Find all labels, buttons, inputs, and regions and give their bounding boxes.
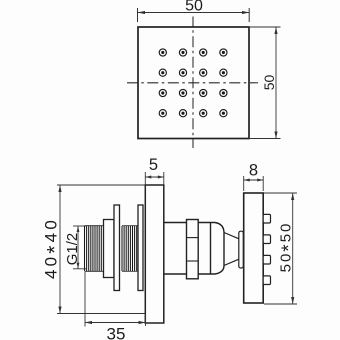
collar ring bbox=[187, 220, 199, 279]
dimension 50 right: bottom arrowhead bbox=[274, 132, 277, 139]
dimension 50 right: dimension line bbox=[275, 27, 277, 139]
dimension 40x40: top arrowhead bbox=[58, 185, 61, 192]
svg-text:G1/2: G1/2 bbox=[64, 233, 81, 266]
dimension 8: left extension line bbox=[243, 176, 245, 191]
dimension 50 top: right arrowhead bbox=[242, 11, 249, 14]
thread section 1 silhouette bbox=[85, 226, 104, 272]
dimension 50 right: extension lines bbox=[250, 27, 281, 139]
dimension G1/2: dimension line bbox=[77, 226, 79, 269]
svg-text:35: 35 bbox=[107, 325, 126, 340]
dimension 35: dimension line bbox=[85, 322, 146, 324]
dimension 50 top: dimension line bbox=[138, 12, 250, 14]
dimension 8: right extension line bbox=[262, 176, 264, 191]
top view square plate 50x50 bbox=[138, 27, 249, 139]
thread section 1 hatching bbox=[85, 226, 102, 272]
nozzle cone bottom line bbox=[224, 259, 239, 265]
dimension 8: right arrowhead bbox=[257, 179, 263, 182]
sprayer body cylinder bbox=[164, 223, 211, 275]
svg-text:40*40: 40*40 bbox=[42, 217, 67, 279]
svg-text:50*50: 50*50 bbox=[278, 222, 301, 273]
nozzle circle r3c2 bbox=[179, 89, 186, 96]
dimension 40x40: dimension line bbox=[59, 185, 61, 314]
nozzle circle r4c4 bbox=[220, 110, 227, 117]
body dome cap bbox=[211, 223, 225, 275]
dimension 8: dimension line bbox=[244, 179, 264, 181]
dimension 35: right extension stub bbox=[145, 314, 147, 327]
nozzle end plate bbox=[239, 231, 244, 268]
dimension 40x40: top extension line bbox=[57, 184, 145, 186]
dimension 50x50: top arrowhead bbox=[291, 193, 294, 200]
nozzle circle r4c3 bbox=[200, 110, 207, 117]
nozzle circle r1c1 bbox=[159, 49, 166, 56]
nozzle circle r1c4 bbox=[220, 49, 227, 56]
dimension 40x40: bottom arrowhead bbox=[58, 307, 61, 314]
dimension 35: left arrowhead bbox=[85, 321, 92, 324]
nozzle circle r3c4 bbox=[220, 89, 227, 96]
nozzle stub 1 bbox=[263, 214, 270, 223]
collar division line upper bbox=[187, 237, 199, 239]
svg-text:8: 8 bbox=[249, 162, 258, 180]
nozzle circles 4x4 grid bbox=[159, 49, 227, 117]
nozzle stub 2 bbox=[263, 235, 270, 244]
thread section 2 hatching bbox=[122, 226, 137, 272]
svg-text:50: 50 bbox=[261, 75, 277, 91]
nozzle circle r4c2 bbox=[179, 110, 186, 117]
nozzle circle r2c4 bbox=[220, 69, 227, 76]
wall plate (5 thick) bbox=[145, 185, 164, 323]
dimension 35: right arrowhead bbox=[139, 321, 146, 324]
collar division line lower bbox=[187, 260, 199, 262]
washer 1 bbox=[114, 205, 120, 291]
nozzle stub 4 bbox=[263, 276, 270, 285]
nozzle circle r3c1 bbox=[159, 89, 166, 96]
dimension 50x50: dimension line bbox=[292, 193, 294, 304]
thread section 2 silhouette bbox=[122, 226, 138, 272]
nozzle stub 3 bbox=[263, 255, 270, 264]
dimension G1/2: bottom arrowhead bbox=[77, 263, 80, 269]
locknut bbox=[104, 220, 115, 278]
dimension 50x50: bottom extension line bbox=[264, 303, 297, 305]
dimension 50 top: left arrowhead bbox=[138, 11, 146, 14]
nozzle circle r2c1 bbox=[159, 69, 166, 76]
nozzle cone top line bbox=[224, 233, 239, 239]
nozzle circle r1c3 bbox=[200, 49, 207, 56]
dimension 8: left arrowhead bbox=[244, 179, 250, 182]
nozzle circle r1c2 bbox=[179, 49, 186, 56]
dimension 50 right: top arrowhead bbox=[274, 27, 277, 34]
dimension 40x40: bottom extension line bbox=[57, 313, 145, 315]
svg-text:50: 50 bbox=[185, 0, 203, 15]
dimension 5: right extension line bbox=[163, 172, 165, 185]
dimension 50x50: bottom arrowhead bbox=[291, 297, 294, 304]
nozzle circle r3c3 bbox=[200, 89, 207, 96]
dimension 5: dimension line bbox=[145, 176, 164, 178]
dimension G1/2: bottom extension line bbox=[73, 268, 86, 270]
nozzle circle r2c2 bbox=[179, 69, 186, 76]
dimension 50x50: top extension line bbox=[264, 192, 297, 194]
nozzle circle r2c3 bbox=[200, 69, 207, 76]
dimension 35: left extension line bbox=[84, 272, 86, 327]
svg-text:5: 5 bbox=[149, 156, 158, 174]
dimension G1/2: top extension line bbox=[73, 225, 86, 227]
face plate (8 thick, 50x50) bbox=[244, 193, 264, 303]
nozzle circle r4c1 bbox=[159, 110, 166, 117]
dimension 50 top: extension ticks bbox=[138, 8, 250, 22]
vertical centerline of top view bbox=[192, 17, 194, 149]
dimension 5: left extension line bbox=[144, 172, 146, 185]
washer 2 bbox=[138, 205, 143, 291]
dimension 5: right arrowhead bbox=[158, 176, 164, 179]
horizontal centerline of top view bbox=[127, 82, 258, 84]
dimension G1/2: top arrowhead bbox=[77, 226, 80, 232]
dimension 5: left arrowhead bbox=[145, 176, 151, 179]
